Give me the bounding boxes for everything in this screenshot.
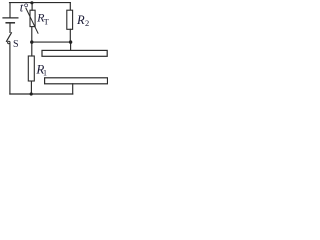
wire junction to upper plate bbox=[70, 42, 72, 50]
wire R1 top lead bbox=[31, 42, 33, 56]
wire RT top lead bbox=[31, 3, 33, 11]
wire RT bottom lead bbox=[31, 27, 33, 42]
svg-text:R: R bbox=[76, 13, 85, 27]
node left mid junction bbox=[30, 40, 33, 43]
switch S hinge circle bbox=[8, 41, 10, 43]
wire R2 bottom lead bbox=[69, 29, 71, 42]
svg-text:T: T bbox=[44, 17, 50, 27]
wire R1 bottom lead bbox=[30, 81, 32, 94]
wire battery to switch bbox=[9, 24, 11, 33]
resistor R2 box bbox=[67, 10, 73, 29]
svg-text:S: S bbox=[13, 39, 19, 50]
node right mid junction bbox=[69, 40, 72, 43]
node bottom junction bbox=[30, 92, 33, 95]
wire top horizontal bbox=[10, 2, 71, 4]
wire right leg to R2 bbox=[69, 3, 71, 11]
capacitor upper plate bbox=[42, 50, 107, 56]
battery E long plate bbox=[3, 17, 18, 19]
wire bottom horizontal bbox=[10, 93, 73, 95]
svg-text:1: 1 bbox=[43, 68, 47, 78]
resistor R1 box bbox=[28, 56, 34, 81]
battery E short plate bbox=[6, 22, 14, 24]
wire switch to bottom bbox=[9, 44, 11, 94]
wire middle horizontal bbox=[32, 41, 71, 43]
node top junction bbox=[30, 1, 33, 4]
svg-text:2: 2 bbox=[85, 18, 89, 28]
capacitor lower plate bbox=[45, 78, 108, 84]
wire lower plate to bottom bbox=[72, 84, 74, 94]
thermistor RT diagonal bbox=[26, 8, 38, 33]
wire left drop to battery bbox=[9, 3, 11, 18]
svg-text:t°: t° bbox=[20, 0, 28, 14]
thermistor RT box bbox=[30, 10, 35, 26]
switch S blade bbox=[7, 33, 12, 42]
